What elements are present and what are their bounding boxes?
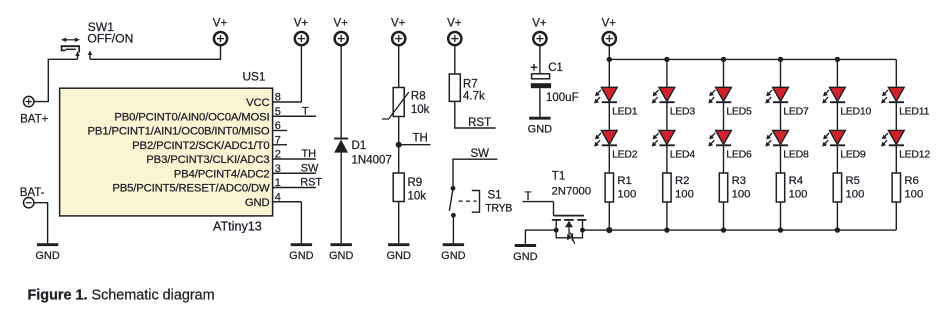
LED LED12	[881, 130, 930, 160]
svg-text:GND: GND	[513, 251, 538, 263]
wire LED9 to R5	[836, 145, 838, 173]
wire LED7 to LED8	[780, 102, 782, 130]
svg-text:V+: V+	[213, 18, 228, 30]
svg-text:TH: TH	[302, 148, 317, 160]
wire LED11 to LED12	[895, 102, 897, 130]
svg-text:V+: V+	[447, 18, 462, 30]
svg-text:VCC: VCC	[246, 97, 269, 109]
LED LED10	[822, 87, 871, 117]
resistor R2 100	[663, 173, 694, 202]
svg-text:OFF/ON: OFF/ON	[87, 32, 133, 46]
svg-text:ATtiny13: ATtiny13	[213, 220, 262, 234]
pin 2 PB3/PCINT3/CLKI/ADC3	[146, 148, 316, 166]
svg-text:LED3: LED3	[670, 106, 696, 118]
wire S1 to ground	[452, 215, 454, 243]
wire LED4 to R2	[666, 145, 668, 173]
svg-text:PB5/PCINT5/RESET/ADC0/DW: PB5/PCINT5/RESET/ADC0/DW	[112, 183, 270, 195]
svg-text:2: 2	[275, 149, 281, 161]
svg-text:PB4/PCINT4/ADC2: PB4/PCINT4/ADC2	[174, 168, 270, 180]
svg-text:GND: GND	[441, 250, 466, 262]
svg-text:LED8: LED8	[783, 148, 809, 160]
node top rail col4	[778, 57, 783, 62]
svg-text:GND: GND	[528, 124, 553, 136]
power V+ (LED matrix)	[602, 18, 617, 46]
wire LED12 to R6	[895, 145, 897, 173]
svg-text:8: 8	[275, 92, 281, 104]
LED LED4	[652, 130, 696, 160]
wire V+ to C1	[539, 46, 541, 74]
pin 3 PB4/PCINT4/ADC2	[174, 162, 319, 180]
svg-text:100: 100	[617, 188, 636, 200]
svg-text:PB3/PCINT3/CLKI/ADC3: PB3/PCINT3/CLKI/ADC3	[146, 154, 269, 166]
battery terminal BAT+	[20, 96, 49, 125]
svg-text:R9: R9	[408, 177, 423, 189]
resistor R5 100	[833, 173, 864, 202]
wire BAT- to ground	[34, 203, 48, 244]
node bottom rail col3	[721, 227, 726, 232]
ground (C1)	[528, 118, 553, 136]
svg-text:LED7: LED7	[783, 106, 809, 118]
power V+ (R7)	[447, 18, 462, 46]
wire R2 to bottom rail	[666, 202, 668, 230]
svg-text:GND: GND	[329, 250, 354, 262]
wire rail to LED3	[666, 59, 668, 87]
wire rail to LED11	[895, 59, 897, 87]
pin 7 PB2/PCINT2/SCK/ADC1/T0	[132, 134, 287, 152]
node bottom rail col5	[835, 227, 840, 232]
node top rail col3	[721, 57, 726, 62]
ground (R9)	[386, 245, 411, 263]
wire T1 source to ground	[525, 230, 556, 244]
wire V+ to R7	[454, 46, 456, 75]
wire V+ to top rail	[608, 46, 610, 60]
ground (D1)	[329, 245, 354, 263]
diode D1 1N4007	[334, 139, 392, 167]
svg-text:V+: V+	[532, 18, 547, 30]
svg-text:S1: S1	[488, 189, 502, 201]
ground (BAT-)	[35, 245, 60, 263]
node bottom rail col4	[778, 227, 783, 232]
node bottom rail col2	[664, 227, 669, 232]
svg-text:GND: GND	[35, 250, 60, 262]
wire V+ to R8	[398, 46, 400, 88]
wire LED1 to LED2	[608, 102, 610, 130]
svg-text:V+: V+	[334, 18, 349, 30]
switch S1 TRYB	[449, 186, 512, 218]
LED LED9	[822, 130, 866, 160]
svg-text:LED6: LED6	[726, 148, 752, 160]
svg-text:100: 100	[846, 188, 865, 200]
pin 6 PB1/PCINT1/AIN1/OC0B/INT0/MISO	[88, 120, 287, 138]
resistor R9 10k	[393, 173, 426, 203]
wire bottom rail	[609, 229, 896, 231]
wire pin4 to ground	[300, 202, 302, 244]
svg-text:SW: SW	[301, 162, 319, 174]
svg-text:V+: V+	[602, 18, 617, 30]
svg-text:BAT-: BAT-	[20, 187, 45, 199]
svg-text:T: T	[302, 105, 309, 117]
IC US1 ATtiny13	[60, 70, 273, 234]
svg-text:PB0/PCINT0/AIN0/OC0A/MOSI: PB0/PCINT0/AIN0/OC0A/MOSI	[114, 111, 269, 123]
pin 8 VCC	[246, 92, 301, 110]
node bottom rail col1	[606, 227, 612, 233]
resistor R7 4.7k	[449, 74, 485, 103]
svg-text:SW: SW	[471, 148, 490, 160]
net RST	[455, 101, 496, 129]
svg-text:GND: GND	[289, 250, 314, 262]
resistor R4 100	[776, 173, 807, 202]
resistor R1 100	[605, 173, 636, 202]
svg-text:100uF: 100uF	[546, 92, 579, 104]
net SW	[453, 148, 498, 186]
svg-text:BAT+: BAT+	[20, 114, 49, 126]
power V+ (battery)	[213, 18, 228, 46]
LED LED5	[708, 87, 752, 117]
svg-text:100: 100	[904, 188, 923, 200]
svg-text:4: 4	[275, 191, 281, 203]
svg-text:R8: R8	[411, 91, 426, 103]
ground (IC pin4)	[289, 245, 314, 263]
svg-text:10k: 10k	[411, 104, 430, 116]
transistor T1 2N7000	[552, 171, 592, 244]
svg-text:PB1/PCINT1/AIN1/OC0B/INT0/MISO: PB1/PCINT1/AIN1/OC0B/INT0/MISO	[88, 126, 270, 138]
svg-text:TH: TH	[413, 132, 428, 144]
svg-text:GND: GND	[245, 197, 270, 209]
wire LED3 to LED4	[666, 102, 668, 130]
node TH	[396, 132, 431, 147]
svg-text:RST: RST	[300, 177, 322, 189]
wire R3 to bottom rail	[723, 202, 725, 230]
wire V+ to D1 cathode	[340, 46, 342, 138]
LED LED6	[708, 130, 752, 160]
svg-text:LED5: LED5	[726, 106, 752, 118]
wire SW1 to V+	[90, 46, 221, 60]
svg-text:LED11: LED11	[899, 106, 929, 118]
wire top rail	[609, 58, 896, 60]
svg-text:R7: R7	[463, 79, 478, 91]
wire R1 to bottom rail	[608, 202, 610, 230]
svg-text:100: 100	[675, 188, 694, 200]
svg-text:1N4007: 1N4007	[352, 154, 392, 166]
svg-text:R6: R6	[904, 175, 918, 187]
svg-text:1: 1	[275, 177, 281, 189]
svg-text:LED9: LED9	[840, 148, 866, 160]
pin 4 GND	[245, 191, 302, 209]
wire rail to LED10	[836, 59, 838, 87]
wire pin8 VCC to V+	[300, 46, 302, 103]
svg-text:US1: US1	[243, 70, 266, 84]
svg-text:TRYB: TRYB	[485, 202, 512, 214]
power V+ (VCC)	[294, 18, 309, 46]
switch SW1 OFF/ON	[61, 20, 134, 60]
wire LED5 to LED6	[723, 102, 725, 130]
svg-text:LED10: LED10	[840, 106, 871, 118]
wire R5 to bottom rail	[836, 202, 838, 230]
ground (S1)	[441, 245, 466, 263]
pin 1 PB5/PCINT5/RESET/ADC0/DW	[112, 177, 322, 195]
svg-text:3: 3	[275, 163, 281, 175]
wire rail to LED1	[608, 59, 610, 87]
LED LED8	[765, 130, 809, 160]
wire R8 to TH node	[398, 117, 400, 174]
power V+ (C1)	[532, 18, 547, 46]
node top rail col1	[607, 57, 612, 62]
thermistor R8 10k	[382, 88, 430, 120]
svg-text:R1: R1	[617, 175, 631, 187]
svg-text:V+: V+	[391, 18, 406, 30]
svg-text:10k: 10k	[408, 191, 427, 203]
wire LED8 to R4	[780, 145, 782, 173]
battery terminal BAT-	[20, 187, 45, 208]
svg-text:LED2: LED2	[612, 148, 638, 160]
resistor R3 100	[719, 173, 750, 202]
svg-text:6: 6	[275, 120, 281, 132]
wire LED6 to R3	[723, 145, 725, 173]
svg-text:R2: R2	[675, 175, 689, 187]
LED LED1	[594, 87, 638, 117]
svg-text:100: 100	[732, 188, 751, 200]
LED LED11	[881, 87, 929, 117]
svg-text:LED4: LED4	[670, 148, 696, 160]
svg-text:LED1: LED1	[612, 106, 638, 118]
power V+ (R8)	[391, 18, 406, 46]
svg-text:PB2/PCINT2/SCK/ADC1/T0: PB2/PCINT2/SCK/ADC1/T0	[132, 140, 269, 152]
svg-text:T: T	[525, 191, 532, 203]
svg-text:R4: R4	[789, 175, 803, 187]
wire C1 to ground	[539, 88, 541, 117]
LED LED3	[652, 87, 696, 117]
power V+ (D1)	[334, 18, 349, 46]
ground (T1)	[513, 246, 538, 264]
svg-text:100: 100	[789, 188, 808, 200]
node top rail col5	[835, 57, 840, 62]
svg-text:Figure 1. Schematic diagram: Figure 1. Schematic diagram	[28, 288, 215, 304]
wire rail to LED7	[780, 59, 782, 87]
svg-text:R5: R5	[846, 175, 860, 187]
svg-text:4.7k: 4.7k	[463, 91, 485, 103]
svg-text:RST: RST	[468, 117, 491, 129]
wire R4 to bottom rail	[780, 202, 782, 230]
LED LED2	[594, 130, 638, 160]
svg-text:7: 7	[275, 134, 281, 146]
wire R6 to bottom rail	[895, 202, 897, 230]
pin 5 PB0/PCINT0/AIN0/OC0A/MOSI	[114, 105, 315, 123]
svg-text:D1: D1	[352, 140, 367, 152]
node top rail col2	[664, 57, 669, 62]
wire R9 to ground	[398, 202, 400, 244]
svg-text:LED12: LED12	[899, 148, 930, 160]
capacitor C1 100uF	[531, 62, 579, 104]
svg-text:GND: GND	[386, 250, 411, 262]
wire rail to LED5	[723, 59, 725, 87]
wire D1 anode to ground	[340, 153, 342, 244]
resistor R6 100	[892, 173, 923, 202]
svg-text:V+: V+	[294, 18, 309, 30]
wire T1 drain to LED rail	[583, 229, 610, 231]
svg-text:T1: T1	[552, 171, 565, 183]
svg-text:5: 5	[275, 106, 281, 118]
wire LED2 to R1	[608, 145, 610, 173]
net T (gate)	[523, 191, 554, 203]
LED LED7	[765, 87, 809, 117]
wire LED10 to LED9	[836, 102, 838, 130]
svg-text:2N7000: 2N7000	[552, 186, 592, 198]
svg-text:C1: C1	[548, 62, 563, 74]
wire BAT+ to SW1	[34, 59, 78, 101]
svg-text:R3: R3	[732, 175, 746, 187]
